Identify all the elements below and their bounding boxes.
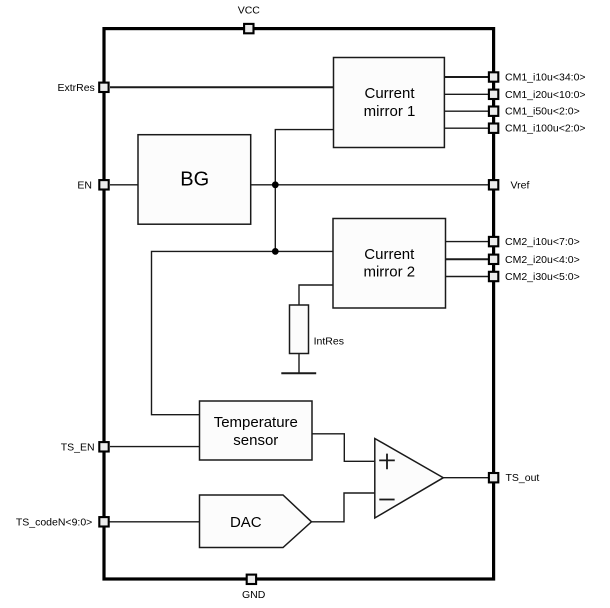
svg-text:DAC: DAC [230,514,262,531]
svg-text:CM1_i100u<2:0>: CM1_i100u<2:0> [505,123,586,135]
svg-text:Current: Current [364,246,415,263]
svg-text:mirror 1: mirror 1 [364,103,416,120]
svg-text:ExtrRes: ExtrRes [57,82,94,94]
svg-text:CM2_i10u<7:0>: CM2_i10u<7:0> [505,236,580,248]
svg-text:IntRes: IntRes [314,336,344,348]
svg-text:VCC: VCC [238,5,261,17]
svg-text:CM1_i10u<34:0>: CM1_i10u<34:0> [505,71,586,83]
svg-text:sensor: sensor [233,432,278,449]
svg-text:Vref: Vref [511,179,530,191]
svg-text:TS_codeN<9:0>: TS_codeN<9:0> [16,517,92,529]
svg-text:CM1_i20u<10:0>: CM1_i20u<10:0> [505,89,586,101]
svg-text:BG: BG [180,169,209,191]
svg-text:TS_out: TS_out [506,472,540,484]
svg-text:Current: Current [364,85,415,102]
svg-text:CM1_i50u<2:0>: CM1_i50u<2:0> [505,106,580,118]
svg-text:CM2_i30u<5:0>: CM2_i30u<5:0> [505,271,580,283]
svg-text:GND: GND [242,589,266,601]
svg-text:EN: EN [77,180,92,192]
svg-text:Temperature: Temperature [214,414,298,431]
svg-text:mirror 2: mirror 2 [363,264,415,281]
svg-text:CM2_i20u<4:0>: CM2_i20u<4:0> [505,254,580,266]
svg-text:TS_EN: TS_EN [61,442,95,454]
